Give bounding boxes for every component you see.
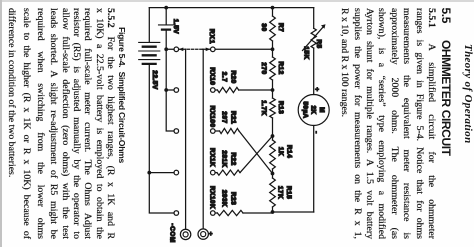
node RX10 contact <box>208 67 215 92</box>
wire: left bus (top wire of figure) <box>149 7 313 9</box>
battery BT2 22.5V <box>139 42 160 89</box>
svg-text:297: 297 <box>220 111 227 123</box>
svg-text:17K: 17K <box>276 186 283 199</box>
wire: shunt rail segments <box>272 8 274 212</box>
svg-text:RX1K: RX1K <box>208 148 215 167</box>
node: contact1 / 1.5V rail <box>164 47 168 51</box>
wire: R5 to meter <box>313 48 315 94</box>
node: contact4 / 22.5V rail <box>147 171 151 175</box>
wire: 22.5V rail <box>149 8 174 213</box>
resistor R14 1K <box>270 140 293 169</box>
svg-text:2.7: 2.7 <box>220 72 227 82</box>
svg-text:30: 30 <box>260 23 267 31</box>
running header: Theory of Operation <box>462 44 473 144</box>
svg-text:+: + <box>313 87 320 91</box>
scan edge shading bottom <box>0 0 2 247</box>
node: bus / 1.5V rail <box>164 6 168 10</box>
svg-text:+: + <box>207 232 214 236</box>
node RX1K contact <box>208 148 215 175</box>
svg-text:R21: R21 <box>230 111 237 124</box>
svg-text:1K: 1K <box>277 147 284 156</box>
svg-text:R15: R15 <box>285 186 292 199</box>
node battery contact 1 (RX1 row) <box>174 47 179 52</box>
svg-text:22.5V: 22.5V <box>151 70 158 89</box>
node: contact2 / 1.5V rail <box>164 88 168 92</box>
wire: meter to right corner <box>313 126 315 213</box>
svg-text:R20: R20 <box>230 70 237 83</box>
resistor R20 2.7 <box>215 70 239 92</box>
node: bus / shunt rail <box>271 6 275 10</box>
wire: right drop to shunt rail <box>273 211 314 213</box>
node battery contact 2 <box>174 88 179 93</box>
svg-text:1.7K: 1.7K <box>260 100 267 116</box>
resistor R23 293K <box>215 190 243 216</box>
figure caption <box>118 27 127 163</box>
svg-text:281K: 281K <box>220 150 227 167</box>
R5 adjust arrow <box>303 27 324 51</box>
wire: RX1 column <box>215 48 272 50</box>
terminal COM <box>168 223 190 243</box>
node RX1 contact <box>208 29 215 52</box>
battery BT1 1.5V <box>159 19 180 34</box>
svg-text:RX1: RX1 <box>208 29 215 45</box>
node battery contact 5 <box>174 211 179 216</box>
svg-text:R23: R23 <box>230 192 237 205</box>
svg-text:M: M <box>318 107 325 113</box>
resistor R22 281K <box>215 150 240 175</box>
resistor R15 17K <box>270 178 292 207</box>
node: R21 diag / rail <box>271 172 275 176</box>
node: R20 / rail <box>271 88 275 92</box>
meter M 2K 50uA <box>298 87 329 134</box>
wire: meter row left segment <box>313 8 315 29</box>
wire: wiper to COM terminal <box>185 49 187 229</box>
svg-text:2K: 2K <box>310 106 317 115</box>
svg-text:RX100: RX100 <box>208 105 215 127</box>
node RX100 contact <box>208 105 215 133</box>
wire: 1.5V rail <box>166 8 174 131</box>
wire: R22 diagonal to R13-R14 junction <box>240 136 273 173</box>
svg-text:R22: R22 <box>230 152 237 165</box>
svg-text:R7: R7 <box>277 23 284 32</box>
resistor R13 1.7K <box>260 98 284 118</box>
node battery contact 3 <box>174 129 179 134</box>
resistor R12 270 <box>260 57 284 80</box>
node RX10K contact <box>208 186 215 215</box>
scan edge shading left <box>0 0 474 2</box>
node: R23 meter / rail <box>271 210 275 214</box>
wire: R21 diagonal to R14-R15 junction <box>239 131 273 174</box>
paragraph 5.5.2 <box>5 8 116 239</box>
wire: wiper to + terminal <box>202 49 204 229</box>
paragraph 5.5.1 <box>338 8 437 239</box>
svg-text:R13: R13 <box>277 101 284 114</box>
svg-text:15K: 15K <box>303 46 310 59</box>
wire: R20 column top <box>239 89 273 91</box>
node: RX1 / rail <box>271 47 275 51</box>
node battery contact 4 <box>174 170 179 175</box>
svg-text:R14: R14 <box>286 145 293 158</box>
svg-text:-COM: -COM <box>168 223 175 243</box>
svg-text:50μA: 50μA <box>302 102 309 119</box>
svg-text:RX10K: RX10K <box>208 186 215 209</box>
svg-text:R5: R5 <box>315 39 322 48</box>
wire: R23 column top <box>243 212 273 214</box>
svg-text:RX10: RX10 <box>208 67 215 85</box>
svg-text:293K: 293K <box>220 190 227 207</box>
svg-text:R12: R12 <box>277 61 284 74</box>
svg-text:1.5V: 1.5V <box>172 19 179 34</box>
node: R22 diag / rail <box>271 134 275 138</box>
resistor R7 30 <box>260 16 284 41</box>
switch wiper (ganged, dashed) <box>179 48 211 52</box>
terminal + <box>198 229 214 239</box>
svg-text:270: 270 <box>260 62 267 74</box>
resistor R5 (Ohms Adjust) <box>303 24 326 59</box>
resistor R21 297 <box>215 111 239 134</box>
junction dots <box>147 6 274 214</box>
section heading 5.5 OHMMETER CIRCUIT <box>440 8 453 156</box>
